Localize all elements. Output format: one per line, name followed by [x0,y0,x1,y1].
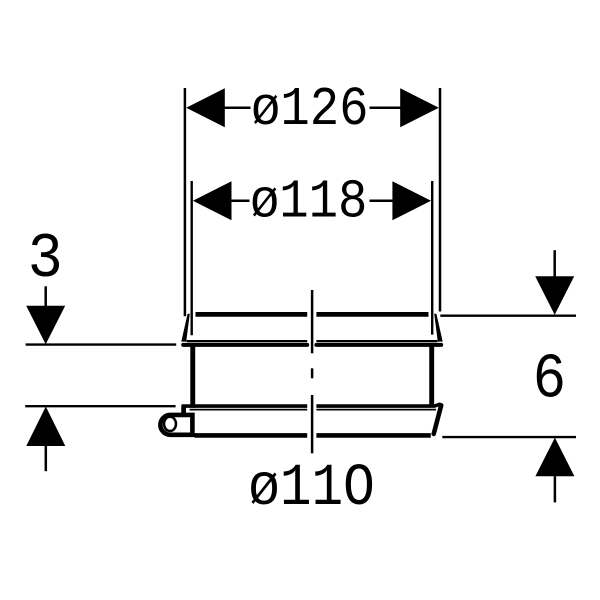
part top edge (rim), broken at centerline [196,312,429,317]
collar right slant wall [434,405,442,434]
dim ø118 line left stub [232,199,250,202]
vent nub stadium outline [160,415,192,435]
body right wall [429,346,434,406]
dim ø126 right arrowhead [400,88,439,127]
body left wall [190,346,195,408]
dim ø126 right extension line [439,88,442,312]
dim ø118 left extension line [190,181,192,335]
dim ø126 line left stub [225,107,251,110]
flange right slant wall [434,314,443,342]
flange lip upper thin line [187,340,438,342]
dim ø118 left arrowhead [193,181,232,220]
dim 6 upper stub [553,250,556,277]
dim ø118 right arrowhead [392,181,431,220]
dim 6 up arrowhead [535,438,574,477]
dim 3 upper stub [44,286,47,306]
svg-text:3: 3 [28,224,63,295]
dim 3 down arrowhead [26,306,65,345]
dim 3 upper extension line [26,343,177,345]
svg-text:ø118: ø118 [250,170,368,233]
flange lip lower thick line [183,343,441,347]
collar top lip line with raised right tip, broken at centerline [182,404,441,406]
dim ø126 left arrowhead [186,88,225,127]
svg-text:ø11O: ø11O [248,455,375,522]
collar left step [181,406,186,414]
vent nub opening ellipse [164,417,176,431]
svg-text:6: 6 [533,345,567,416]
svg-text:ø126: ø126 [251,78,369,141]
collar bottom edge, broken at centerline [195,433,431,438]
collar inner thin line [190,409,437,411]
dim 6 upper extension line [440,315,576,317]
dim 3 up arrowhead [26,407,65,447]
dim 3 lower extension line [25,405,175,407]
dim 6 lower extension line [442,436,576,438]
centerline dash-dot [311,290,314,453]
dim 3 lower stub [45,446,48,471]
dim 6 lower stub [554,476,557,502]
dim ø118 right extension line [431,181,433,335]
dim ø118 line right stub [370,199,393,202]
flange left slant wall [181,314,190,342]
dim ø126 left extension line [184,88,187,316]
dim ø126 line right stub [370,107,401,110]
dim 6 down arrowhead [535,276,574,315]
